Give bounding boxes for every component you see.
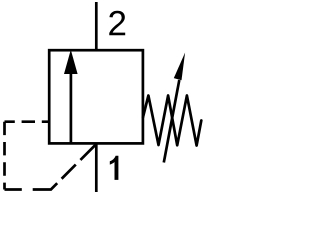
- pilot line (dashed), left vertical run: [3, 122, 6, 190]
- flow path arrowhead: [64, 50, 78, 74]
- port 2 line: [95, 2, 98, 50]
- port 2 label: [109, 11, 125, 35]
- adjustment arrow shaft: [164, 80, 180, 163]
- pilot line (dashed), bottom run and diagonal to port 1 junction: [5, 144, 97, 190]
- flow path arrow shaft: [70, 73, 73, 145]
- valve body U1 (square envelope): [49, 50, 143, 143]
- spring (adjustable), zigzag: [143, 96, 201, 146]
- pilot line (dashed), upper horizontal run: [5, 120, 50, 123]
- adjustment arrowhead: [174, 53, 185, 81]
- port 1 label: [110, 156, 119, 180]
- port 1 line: [95, 143, 98, 192]
